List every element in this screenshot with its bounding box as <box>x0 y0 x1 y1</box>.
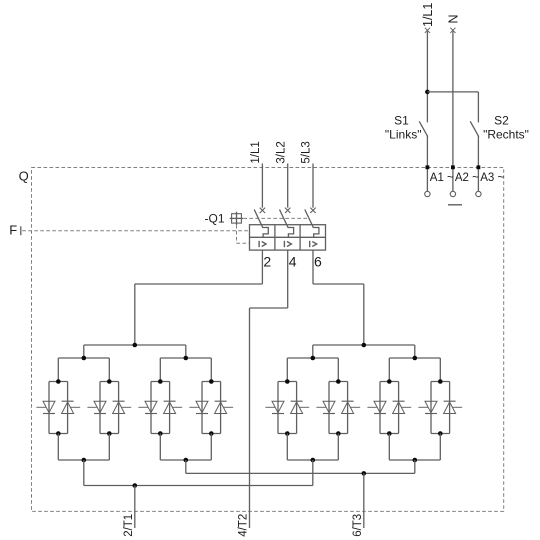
node V7 top <box>387 379 392 384</box>
node feed junction <box>362 343 367 348</box>
node V2 bottom <box>107 431 112 436</box>
wire thyristor pair to bus <box>439 434 441 461</box>
thyristor V3a (down) <box>138 401 157 413</box>
thyristor V4b (up) <box>215 401 234 413</box>
wire pole3 output <box>312 250 314 284</box>
svg-text:Q: Q <box>19 169 29 184</box>
wire T1 bus <box>84 485 313 487</box>
thyristor pair V1 frame <box>49 382 68 434</box>
thyristor V2a (down) <box>87 401 106 413</box>
wire 3/L2 input <box>287 164 289 208</box>
wire pair bus <box>160 357 211 359</box>
label 1/L1 <box>250 141 262 163</box>
wire drop to thyristor pair <box>57 358 59 382</box>
breaker pole 2 overcurrent release I> <box>284 241 291 247</box>
thyristor V6b (up) <box>342 401 361 413</box>
wire N down <box>452 31 454 191</box>
wire pair bus <box>160 459 211 461</box>
thyristor pair V8 frame <box>431 382 450 434</box>
wire drop to thyristor pair <box>286 358 288 382</box>
terminal mark A3 <box>477 165 481 169</box>
wire thyristor pair to bus <box>57 434 59 461</box>
thyristor pair V4 frame <box>202 382 221 434</box>
wire pole2 jog <box>250 307 288 309</box>
dashed trip linkage horizontal <box>243 217 309 219</box>
wire left bridge feed <box>134 284 136 345</box>
svg-text:5/L3: 5/L3 <box>301 141 313 163</box>
neutral bar mark <box>448 204 462 206</box>
thyristor V5a (down) <box>265 401 284 413</box>
thyristor pair V5 frame <box>278 382 297 434</box>
label N <box>447 14 461 23</box>
svg-text:-Q1: -Q1 <box>205 212 225 226</box>
svg-text:A2 ~: A2 ~ <box>455 172 479 184</box>
wire drop <box>414 345 416 358</box>
node T3 tap <box>362 471 367 476</box>
node V1 bottom <box>56 431 61 436</box>
thyristor V7b (up) <box>393 401 412 413</box>
wire drop <box>83 345 85 358</box>
svg-text:6: 6 <box>314 253 322 269</box>
svg-text:F: F <box>9 223 17 238</box>
wire drop to thyristor pair <box>210 358 212 382</box>
breaker pole 1 overcurrent release I> <box>259 241 266 247</box>
terminal 3/L2 <box>285 208 290 213</box>
wire pair bus <box>58 357 109 359</box>
wire 4/T2 run <box>249 308 251 528</box>
svg-text:"Rechts": "Rechts" <box>483 128 529 142</box>
thyristor V6a (down) <box>316 401 335 413</box>
breaker pole 3 overcurrent release I> <box>310 241 317 247</box>
terminal label 4 <box>289 253 297 269</box>
thyristor V8b (up) <box>444 401 463 413</box>
switch S2 label <box>494 113 509 127</box>
wire pair bus <box>389 357 440 359</box>
label 2/T1 <box>123 514 135 537</box>
plug terminal A1 <box>425 191 430 196</box>
wire 6/T3 run <box>363 473 365 528</box>
breaker pole 2 latch <box>288 228 294 238</box>
F input tick <box>20 226 22 235</box>
wire drop <box>312 345 314 358</box>
thyristor pair V2 frame <box>100 382 119 434</box>
svg-text:A1 ~: A1 ~ <box>430 172 454 184</box>
node V6 bottom <box>336 431 341 436</box>
wire thyristor pair to bus <box>337 434 339 461</box>
svg-text:A3 ~: A3 ~ <box>480 172 504 184</box>
node V4 bottom <box>209 431 214 436</box>
thyristor V5b (up) <box>291 401 310 413</box>
label 5/L3 <box>301 141 313 163</box>
node feed junction <box>133 343 138 348</box>
wire right bridge feed <box>363 284 365 345</box>
wire pair bus <box>389 459 440 461</box>
wire drop <box>185 345 187 358</box>
svg-text:1/L1: 1/L1 <box>421 3 435 27</box>
node pair junction <box>311 356 316 361</box>
thyristor pair V6 frame <box>329 382 348 434</box>
wire thyristor pair to bus <box>210 434 212 461</box>
thyristor V3b (up) <box>164 401 183 413</box>
dashed control line F <box>22 230 249 232</box>
svg-text:4/T2: 4/T2 <box>238 514 250 537</box>
wire 5/L3 input <box>312 164 314 208</box>
label Links <box>385 128 422 142</box>
dashed actuator link to release <box>237 242 250 244</box>
wire drop to thyristor pair <box>337 358 339 382</box>
terminal label 6 <box>314 253 322 269</box>
node pair junction <box>413 458 418 463</box>
wire S2 to A3 <box>477 136 479 191</box>
thyristor V1a (down) <box>36 401 55 413</box>
wire drop to thyristor pair <box>159 358 161 382</box>
node T1 tap <box>133 483 138 488</box>
manual actuator square <box>230 212 244 225</box>
wire to S2 <box>427 91 478 93</box>
switch S1 label <box>394 113 409 127</box>
node V6 top <box>336 379 341 384</box>
wire thyristor pair to bus <box>388 434 390 461</box>
node pair junction <box>184 458 189 463</box>
node junction L1/S2 <box>425 90 430 95</box>
wire drop to thyristor pair <box>108 358 110 382</box>
wire 1/L1 down <box>426 31 428 122</box>
wire drop to thyristor pair <box>439 358 441 382</box>
node V2 top <box>107 379 112 384</box>
wire T1 drop <box>83 460 85 486</box>
wire pole3 to right bridge <box>313 283 364 285</box>
terminal label 2 <box>263 253 271 269</box>
wire thyristor pair to bus <box>159 434 161 461</box>
terminal label A1~ <box>430 172 454 184</box>
svg-text:1/L1: 1/L1 <box>250 141 262 163</box>
terminal label A3~ <box>480 172 504 184</box>
svg-text:S1: S1 <box>394 113 409 127</box>
wire T3 rise <box>414 460 416 473</box>
wire pair bus <box>287 357 338 359</box>
thyristor pair V3 frame <box>151 382 170 434</box>
wire pair bus <box>287 459 338 461</box>
wire 2/T1 run <box>134 486 136 529</box>
node pair junction <box>184 356 189 361</box>
svg-text:N: N <box>447 14 461 23</box>
thyristor V1b (up) <box>62 401 81 413</box>
node V4 top <box>209 379 214 384</box>
node V8 top <box>438 379 443 384</box>
label 3/L2 <box>275 141 287 163</box>
wire S1 to A1 <box>426 136 428 191</box>
switch S2 blade <box>470 121 479 136</box>
terminal 1/L1 <box>425 28 430 33</box>
wire bridge bus <box>313 344 415 346</box>
terminal mark A2 <box>451 165 455 169</box>
wire bridge bus <box>84 344 186 346</box>
enclosure box Q (dashed) <box>32 168 504 512</box>
breaker pole 1 contact blade <box>254 210 263 228</box>
node V5 bottom <box>285 431 290 436</box>
breaker pole 2 contact blade <box>280 210 289 228</box>
wire pair bus <box>58 459 109 461</box>
wire T1 rise <box>312 460 314 486</box>
wire thyristor pair to bus <box>286 434 288 461</box>
plug terminal A3 <box>476 191 481 196</box>
label 4/T2 <box>238 514 250 537</box>
switch S1 blade <box>419 121 428 136</box>
svg-text:2/T1: 2/T1 <box>123 514 135 537</box>
svg-text:"Links": "Links" <box>385 128 422 142</box>
node pair junction <box>82 458 87 463</box>
label F <box>9 223 17 238</box>
breaker pole 3 latch <box>313 228 319 238</box>
wire pole1 to left bridge <box>135 283 263 285</box>
thyristor pair V7 frame <box>380 382 399 434</box>
svg-text:6/T3: 6/T3 <box>352 514 364 537</box>
thyristor V7a (down) <box>367 401 386 413</box>
node V1 top <box>56 379 61 384</box>
wire T3 bus <box>186 472 415 474</box>
wire T3 drop <box>185 460 187 473</box>
node V8 bottom <box>438 431 443 436</box>
wire pole2 output <box>287 250 289 308</box>
node V3 top <box>158 379 163 384</box>
node pair junction <box>311 458 316 463</box>
svg-text:3/L2: 3/L2 <box>275 141 287 163</box>
node V3 bottom <box>158 431 163 436</box>
node pair junction <box>82 356 87 361</box>
breaker -Q1 housing <box>250 225 326 250</box>
node V5 top <box>285 379 290 384</box>
terminal 5/L3 <box>310 208 315 213</box>
label 1/L1 (control) <box>421 3 435 27</box>
terminal N <box>450 28 455 33</box>
plug terminal A2 <box>450 191 455 196</box>
wire thyristor pair to bus <box>108 434 110 461</box>
terminal 1/L1 <box>260 208 265 213</box>
wire 1/L1 input <box>261 164 263 208</box>
wire pole1 output <box>261 250 263 284</box>
label Rechts <box>483 128 529 142</box>
dashed actuator drop <box>236 225 238 243</box>
node pair junction <box>413 356 418 361</box>
breaker label -Q1 <box>205 212 225 226</box>
label 6/T3 <box>352 514 364 537</box>
svg-text:4: 4 <box>289 253 297 269</box>
label Q <box>19 169 29 184</box>
thyristor V2b (up) <box>113 401 132 413</box>
svg-text:2: 2 <box>263 253 271 269</box>
thyristor V4a (down) <box>189 401 208 413</box>
node V7 bottom <box>387 431 392 436</box>
terminal label A2~ <box>455 172 479 184</box>
terminal mark A1 <box>426 165 430 169</box>
wire drop to thyristor pair <box>388 358 390 382</box>
wire S2 drop <box>477 92 479 123</box>
svg-text:S2: S2 <box>494 113 509 127</box>
thyristor V8a (down) <box>418 401 437 413</box>
breaker pole 1 latch <box>263 228 269 238</box>
breaker pole 3 contact blade <box>305 210 314 228</box>
